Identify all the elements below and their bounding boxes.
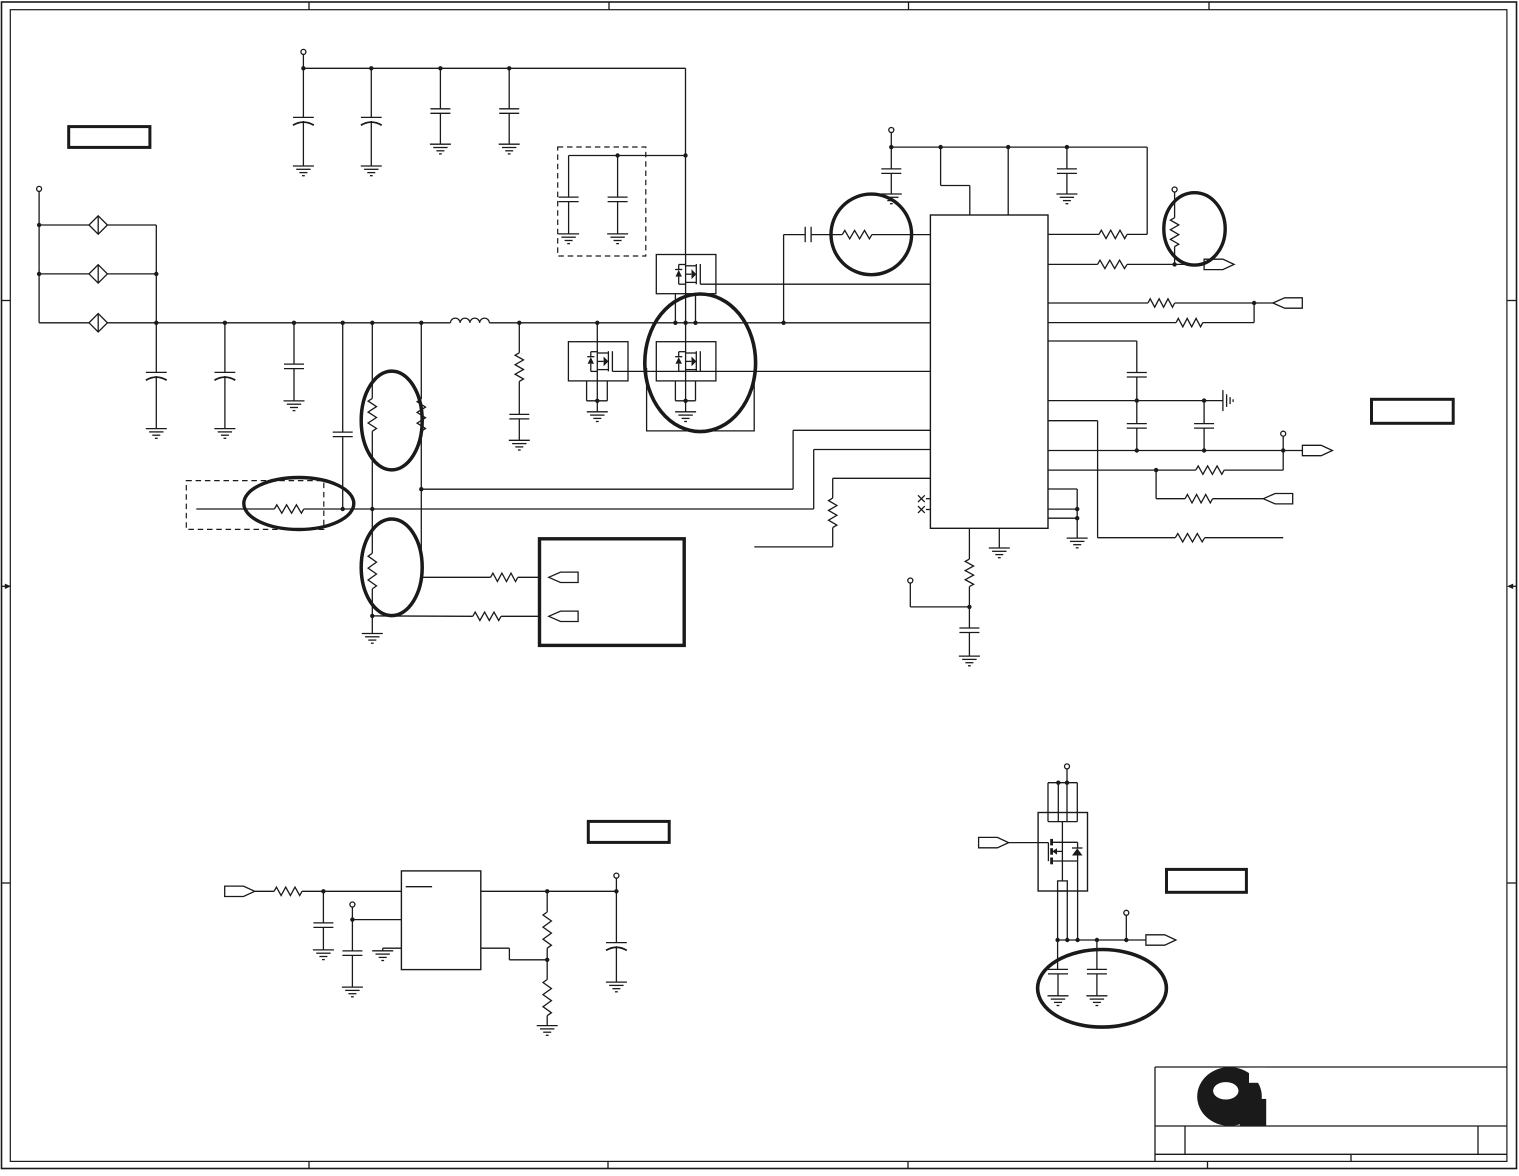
ground C12 — [1056, 194, 1077, 204]
wire VCC to U1 pin — [941, 147, 970, 215]
node EN terminal — [350, 902, 355, 920]
ground C18 — [313, 950, 334, 960]
junction dot RT node — [967, 605, 971, 609]
transistor Q2 — [568, 342, 628, 381]
resistor R16 — [965, 528, 973, 628]
resistor R20 — [515, 323, 523, 415]
junction dot Q2 source — [595, 399, 599, 403]
junction dot LDO in — [321, 889, 325, 893]
label box LDO — [588, 821, 669, 842]
resistor R3 sense — [274, 505, 303, 513]
ground C20 — [606, 982, 627, 992]
ground R2 — [362, 634, 383, 644]
connector J1 thermistor block — [540, 539, 685, 646]
transistor Q1 — [656, 255, 716, 294]
wire Q2 source legs — [587, 381, 608, 401]
wire VCC rail — [891, 146, 1147, 148]
wire Rsense net — [196, 508, 813, 510]
title block frame — [1155, 1067, 1507, 1161]
wire divider down — [1156, 470, 1185, 499]
wire Q4 output net — [1058, 939, 1146, 941]
junction dots dashed node — [615, 153, 687, 157]
ground Q3 — [675, 412, 696, 422]
ground C5 — [558, 234, 579, 244]
junction dot EN — [350, 917, 354, 921]
resistor R1 — [368, 323, 376, 509]
wire FB output net — [1048, 450, 1302, 452]
source diode D2 — [89, 265, 107, 283]
capacitor C13 series — [784, 227, 843, 242]
ground U2 — [372, 951, 393, 961]
wire U2 gnd — [383, 948, 402, 951]
wire U1 gnd bond — [1048, 489, 1077, 538]
wire R12 up — [1253, 303, 1255, 323]
option box Q3 — [647, 368, 755, 431]
capacitor C20 — [606, 891, 627, 982]
resistor R2 — [368, 509, 376, 634]
capacitor C15 — [1127, 401, 1147, 451]
wire rail to Q1 drain — [685, 68, 687, 254]
ground C3 — [430, 144, 451, 154]
capacitor C4 — [499, 68, 519, 144]
junction dots Q4 out — [1055, 938, 1128, 942]
resistor R14 — [1185, 495, 1263, 503]
capacitor C12 — [1057, 147, 1077, 194]
highlight ellipse R1 — [361, 371, 422, 470]
node FB terminal — [1281, 431, 1286, 450]
wire Q4 gate — [1009, 842, 1049, 844]
capacitor C11 — [881, 147, 901, 194]
ground C21 — [1048, 996, 1069, 1006]
ground C6 — [607, 234, 628, 244]
net tag Q4 gate — [979, 837, 1009, 847]
wire EN to LDO — [352, 919, 401, 921]
capacitor C22 — [1087, 940, 1107, 996]
junction dots main bus — [154, 321, 786, 325]
ground Q2 — [587, 412, 608, 422]
resistor R17 — [274, 887, 302, 895]
ground C17 — [959, 656, 980, 666]
wire LDO output — [481, 890, 617, 892]
capacitor C16 — [1194, 401, 1214, 451]
wire main bus VIN — [39, 322, 930, 324]
no-connect pin X1 — [918, 495, 930, 502]
capacitor C17 — [959, 628, 979, 656]
source diode D1 — [89, 216, 107, 234]
junction dot R11 node — [1252, 301, 1256, 305]
inductor L1 — [450, 318, 489, 323]
wire C13 to bus — [783, 235, 785, 323]
capacitor C23 — [509, 414, 529, 440]
junction dot FB LDO — [545, 958, 549, 962]
wire Q4 source legs — [1058, 861, 1078, 940]
capacitor C1 — [293, 68, 314, 166]
analog ground symbol — [1223, 390, 1233, 411]
wire D2 row — [39, 273, 156, 275]
ground C7 — [146, 429, 167, 439]
junction dot R13 — [1154, 468, 1158, 472]
wire Q1 gate to IC — [700, 283, 930, 285]
wire sense branch — [420, 323, 422, 578]
node source terminal — [37, 186, 42, 322]
capacitor C6 — [608, 156, 628, 234]
net tag FBSEL — [1263, 494, 1292, 504]
ground C4 — [499, 144, 520, 154]
resistor R8 — [1048, 230, 1147, 238]
wire U2 FB — [481, 948, 547, 960]
label box load switch — [1167, 869, 1247, 892]
junction dots source column — [37, 223, 41, 276]
wire sense to IC — [421, 430, 930, 489]
ground C1 — [293, 166, 314, 176]
resistor R12 — [1048, 318, 1254, 326]
capacitor C21 — [1048, 940, 1068, 996]
wire U1 pgnd — [998, 528, 1000, 548]
wire VCC feedback corner — [1146, 147, 1148, 234]
junction dots Q4 drain — [1056, 781, 1069, 785]
transistor Q3 — [656, 342, 716, 381]
junction dots gnd bond — [1075, 507, 1079, 521]
ground C19 — [342, 987, 363, 997]
junction dots top rail — [301, 66, 511, 70]
wire Q3 source legs — [675, 381, 695, 401]
wire Rsense to IC — [814, 450, 931, 510]
wire diode collector — [155, 225, 157, 323]
capacitor C8 — [215, 323, 236, 429]
net tag VSW — [1146, 935, 1176, 945]
transistor Q4 — [1038, 813, 1087, 892]
source diode D3 — [89, 314, 107, 332]
resistor R18 — [543, 891, 551, 960]
resistor R4 — [491, 573, 518, 581]
ground U1 pgnd — [989, 548, 1010, 558]
ground C2 — [361, 166, 382, 176]
wire VCC to U1 pin2 — [1007, 147, 1009, 215]
dashed box Rsense — [186, 481, 323, 530]
resistor R13 — [1048, 466, 1283, 474]
node RT terminal — [908, 578, 970, 607]
capacitor C5 — [559, 197, 579, 234]
junction dots LDO out — [545, 889, 619, 893]
capacitor C7 — [146, 323, 167, 429]
label box top left — [69, 127, 150, 148]
wire D1 row — [39, 224, 156, 226]
border centering arrow left — [2, 584, 12, 589]
label box DNP right — [1372, 399, 1454, 423]
junction dot R9 node — [1172, 262, 1176, 266]
resistor R10 — [1170, 218, 1178, 265]
ground C11 — [881, 194, 902, 204]
resistor R5 — [473, 612, 501, 620]
capacitor C18 — [313, 891, 333, 950]
junction dot Q3 source — [683, 399, 687, 403]
junction dot R2 top — [370, 614, 374, 618]
ground C23 — [509, 440, 530, 450]
capacitor C10 — [333, 323, 353, 509]
junction dots VCC rail — [889, 145, 1069, 149]
ground C9 — [284, 401, 305, 411]
resistor R9 — [1048, 260, 1204, 268]
wire U1 PGOOD — [1048, 421, 1175, 538]
wire NTC pin1 — [421, 576, 539, 578]
regulator U2 — [401, 871, 480, 970]
pin tag J1-1 — [549, 572, 578, 582]
wire dashed box node — [569, 156, 686, 198]
ground U1 right — [1067, 538, 1088, 548]
net tag EN — [1273, 298, 1302, 308]
node Q4 out terminal — [1124, 910, 1129, 940]
junction dot sense — [419, 487, 423, 491]
resistor R21 — [417, 399, 425, 431]
wire R7 to IC — [872, 234, 931, 236]
junction dots FB net — [1135, 448, 1286, 452]
wire R13 up — [1282, 451, 1284, 471]
resistor R7 — [842, 230, 872, 238]
wire Q1 source legs — [675, 294, 695, 323]
junction dots AGND — [1135, 398, 1207, 402]
highlight ellipse R3 — [244, 478, 354, 530]
junction dot collector — [154, 272, 158, 276]
net tag VIN LDO — [225, 886, 255, 896]
highlight ellipse output caps — [1038, 950, 1167, 1028]
company logo — [1197, 1067, 1266, 1126]
wire AGND net — [1048, 400, 1223, 402]
wire NTC pin2 — [372, 615, 539, 617]
dashed option box DNP — [558, 147, 646, 256]
wire Q2 drain channel — [596, 323, 598, 412]
highlight ellipse Q3 — [645, 294, 756, 432]
wire LDO input — [255, 890, 402, 892]
highlight ellipse R10 — [1164, 193, 1225, 265]
resistor R15 — [1175, 534, 1283, 542]
junction dots Rsense net — [341, 507, 375, 511]
resistor R19 — [543, 960, 551, 1026]
controller U1 — [930, 215, 1048, 528]
pin tag J1-2 — [549, 611, 578, 621]
node VIN top terminal — [301, 49, 306, 68]
ground C8 — [214, 429, 235, 439]
capacitor C14 — [1127, 373, 1147, 401]
highlight ellipse R2 — [361, 519, 422, 616]
capacitor C3 — [430, 68, 450, 144]
ground R19 — [537, 1026, 558, 1036]
node pullup terminal — [1172, 187, 1177, 218]
wire stub Q3 source sense — [754, 546, 832, 548]
wire top rail — [303, 67, 685, 69]
wire Q3 drain channel — [685, 323, 687, 412]
net tag BOOT — [1204, 259, 1234, 269]
resistor R6 — [829, 478, 837, 547]
wire Q1 channel — [685, 255, 687, 323]
border centering arrow right — [1507, 584, 1517, 589]
highlight circle R7 — [831, 194, 912, 275]
capacitor C19 — [342, 920, 362, 988]
resistor R11 — [1048, 299, 1273, 307]
wire U1 SS pin — [1048, 341, 1137, 373]
no-connect pin X2 — [918, 506, 930, 513]
node LDO out terminal — [614, 873, 619, 891]
node VCC terminal — [889, 128, 894, 148]
capacitor C9 — [284, 323, 304, 401]
wire Q4 drain legs — [1048, 783, 1077, 822]
capacitor C2 — [361, 68, 382, 166]
node VBAT terminal — [1065, 764, 1070, 783]
wire Q2 Q3 gate to IC — [612, 370, 930, 372]
wire R6 to IC — [833, 477, 931, 479]
net tag VOUT — [1302, 445, 1332, 455]
ground C22 — [1086, 996, 1107, 1006]
